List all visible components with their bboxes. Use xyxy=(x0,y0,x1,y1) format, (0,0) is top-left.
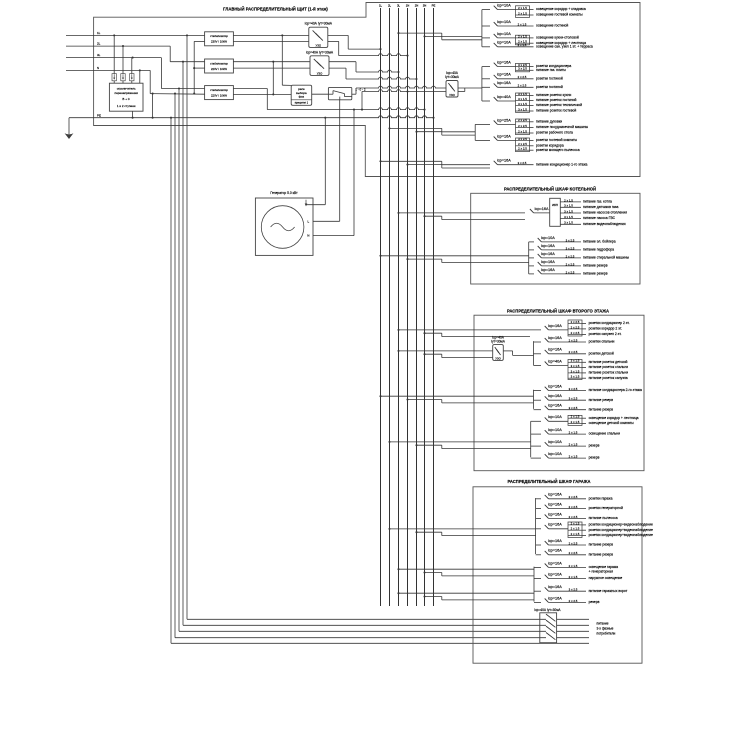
breaker QF21 40A xyxy=(534,359,629,380)
svg-text:Iср=16А: Iср=16А xyxy=(548,324,563,328)
feed wire bus 3N to 2nd floor row 1 xyxy=(423,332,530,336)
wire generator L to switch S1 xyxy=(313,100,340,222)
phase selection relay K1 (реле выбора фаз) xyxy=(291,85,312,105)
breaker QF16 boiler room xyxy=(529,260,608,268)
garage lighting riser xyxy=(533,567,535,602)
svg-text:2 x 1.5: 2 x 1.5 xyxy=(569,575,578,579)
breaker QF3 10A xyxy=(482,32,586,45)
svg-text:освещение коридор + лестница: освещение коридор + лестница xyxy=(589,416,639,420)
svg-text:УЗО: УЗО xyxy=(316,43,322,47)
breaker QF10 16A xyxy=(475,134,580,152)
svg-text:питание духовки: питание духовки xyxy=(536,119,562,123)
breaker QF29 16A xyxy=(536,493,613,501)
breaker QF19 16A xyxy=(534,336,615,344)
svg-text:УЗО: УЗО xyxy=(495,356,501,360)
svg-text:Iср=16А: Iср=16А xyxy=(497,61,512,65)
wire neutral N incoming xyxy=(66,66,205,95)
breaker QF5 16A xyxy=(482,61,572,72)
wire stabilizer U1 tap to relay K1 xyxy=(282,35,291,85)
2nd floor socket riser xyxy=(533,341,535,365)
svg-text:потребители: потребители xyxy=(597,632,616,636)
UPS unit (ИБП) xyxy=(550,198,561,226)
svg-text:Iср=16А: Iср=16А xyxy=(497,73,512,77)
feed wire bus 3N to 2nd floor RCD xyxy=(423,353,492,357)
svg-text:220V / 10kW: 220V / 10kW xyxy=(211,93,227,97)
svg-text:питание: питание xyxy=(597,622,609,626)
svg-text:3-х фазные: 3-х фазные xyxy=(597,627,614,631)
svg-text:PE: PE xyxy=(97,113,101,117)
feed wire bus 2N to garage socket riser xyxy=(415,531,535,535)
breaker QF28 10A xyxy=(531,452,600,460)
svg-text:В + С: В + С xyxy=(122,97,130,101)
svg-text:3 x 2.5: 3 x 2.5 xyxy=(566,238,575,242)
svg-text:2 x 1.5: 2 x 1.5 xyxy=(564,198,573,202)
breaker QF2 10A xyxy=(482,20,569,28)
wire generator N to N rail xyxy=(313,110,354,236)
wire 1L feeder to garage 3-phase switch xyxy=(187,35,546,619)
breaker QF15 boiler room xyxy=(529,252,630,260)
svg-text:Iср=16А: Iср=16А xyxy=(497,81,512,85)
wire PE bus xyxy=(69,113,435,118)
svg-text:Iср=16А: Iср=16А xyxy=(548,585,563,589)
svg-text:питание насоса ГВС: питание насоса ГВС xyxy=(583,216,616,220)
svg-text:Генератор 5.0 кВт: Генератор 5.0 кВт xyxy=(270,191,298,195)
breaker QF7 16A xyxy=(482,81,563,89)
svg-text:освещение спальни: освещение спальни xyxy=(589,432,620,436)
svg-text:Iср=16А: Iср=16А xyxy=(541,260,556,264)
svg-text:+ генераторная: + генераторная xyxy=(589,570,613,574)
feed wire bus 2N to appliance riser xyxy=(415,131,475,135)
wire 3-phase output 3 xyxy=(557,630,589,632)
svg-text:2N: 2N xyxy=(415,4,419,8)
breaker QF11 16A xyxy=(494,159,588,167)
feed wire bus 3N to boiler UPS breaker xyxy=(423,215,525,219)
svg-text:Iср=16А: Iср=16А xyxy=(548,539,563,543)
breaker QF1 10A xyxy=(482,4,586,18)
feed wire bus 3L to garage lighting riser xyxy=(397,568,534,570)
svg-text:2 x 2.5: 2 x 2.5 xyxy=(518,75,527,79)
svg-text:розетки спальни: розетки спальни xyxy=(589,340,615,344)
svg-text:2 x 2.5: 2 x 2.5 xyxy=(569,551,578,555)
svg-text:освещение кухни-столовой: освещение кухни-столовой xyxy=(536,36,579,40)
2nd floor conditioner riser xyxy=(533,390,535,409)
svg-text:питание насосов отопления: питание насосов отопления xyxy=(583,211,627,215)
feed wire bus 3N to garage gate riser xyxy=(423,595,534,599)
svg-text:1L: 1L xyxy=(97,31,101,35)
breaker QF4 10A xyxy=(482,41,593,49)
svg-text:ГЛАВНЫЙ РАСПРЕДЕЛИТЕЛЬНЫЙ ЩИТ: ГЛАВНЫЙ РАСПРЕДЕЛИТЕЛЬНЫЙ ЩИТ (1-й этаж) xyxy=(223,6,328,11)
wire UPS output 3 xyxy=(560,209,627,214)
svg-text:N: N xyxy=(307,234,309,238)
garage 3-phase main switch QS1 xyxy=(534,608,561,643)
svg-text:2 x 1.5: 2 x 1.5 xyxy=(569,431,578,435)
svg-text:2 x 2.5: 2 x 2.5 xyxy=(569,515,578,519)
svg-text:Iср=16А: Iср=16А xyxy=(541,252,556,256)
svg-text:Iср=40А Iут=30мА: Iср=40А Iут=30мА xyxy=(534,608,561,612)
feed wire bus 3N to lighting riser xyxy=(423,35,481,39)
breaker QF12 16A UPS feed xyxy=(530,207,550,213)
feed wire bus 3L to garage gate riser xyxy=(397,592,534,594)
wire phase 3L incoming xyxy=(66,53,205,89)
svg-text:2 x 2.5: 2 x 2.5 xyxy=(569,599,578,603)
breaker QF36 10A xyxy=(534,573,622,581)
breaker QF32 16A xyxy=(536,521,653,537)
svg-text:УЗО: УЗО xyxy=(317,71,323,75)
svg-text:Iср=10А: Iср=10А xyxy=(497,32,512,36)
svg-text:2 x 2.5: 2 x 2.5 xyxy=(569,541,578,545)
lighting group riser (main board) xyxy=(481,10,483,47)
svg-text:2 x 2.5: 2 x 2.5 xyxy=(566,270,575,274)
svg-text:питание розеток санузла: питание розеток санузла xyxy=(589,376,628,380)
wire N feeder to garage 3-phase switch xyxy=(175,94,546,638)
wire 3-phase output 2 xyxy=(557,624,589,626)
breaker QF22 16A xyxy=(534,385,642,393)
svg-text:освещение коридор + кладовка: освещение коридор + кладовка xyxy=(536,7,586,11)
wire 3-phase output 4 xyxy=(557,637,589,639)
svg-text:Iср=10А: Iср=10А xyxy=(548,440,563,444)
wire 3L feeder to garage 3-phase switch xyxy=(179,89,546,632)
breaker QF35 10A xyxy=(534,561,618,573)
svg-text:розетки детской: розетки детской xyxy=(589,351,614,355)
svg-text:Iср=16А: Iср=16А xyxy=(548,493,563,497)
garage panel enclosure xyxy=(473,479,642,663)
RCD Q4 (УЗО 40A/30mA) 2nd floor xyxy=(491,336,506,361)
breaker QF17 boiler room xyxy=(529,268,608,276)
generator G1 5.0 kW xyxy=(255,191,313,255)
second floor panel enclosure xyxy=(474,308,644,470)
svg-text:2 x 1.5: 2 x 1.5 xyxy=(569,443,578,447)
svg-text:розетки генераторной: розетки генераторной xyxy=(589,506,623,510)
svg-text:3 x 1.5: 3 x 1.5 xyxy=(564,215,573,219)
svg-text:освещение детской комнаты: освещение детской комнаты xyxy=(589,421,635,425)
boiler room panel enclosure xyxy=(471,187,640,284)
main distribution board enclosure xyxy=(94,3,640,177)
svg-text:Iср=16А: Iср=16А xyxy=(548,385,563,389)
breaker QF37 16A xyxy=(534,585,628,593)
breaker QF13 boiler room xyxy=(529,236,616,244)
svg-text:питание розеток кухни: питание розеток кухни xyxy=(536,93,571,97)
svg-text:розетки санузел 2 эт.: розетки санузел 2 эт. xyxy=(589,332,622,336)
wire UPS output 2 xyxy=(560,204,618,209)
svg-text:стабилизатор: стабилизатор xyxy=(210,88,228,92)
wire switch S1 output to RCD Q3 xyxy=(352,86,446,94)
svg-text:L: L xyxy=(308,219,310,223)
svg-text:2 x 1.5: 2 x 1.5 xyxy=(518,43,527,47)
svg-text:Iср=16А: Iср=16А xyxy=(548,394,563,398)
feed wire bus 3L to boiler UPS breaker xyxy=(397,212,525,214)
svg-text:питание розеток гостиной: питание розеток гостиной xyxy=(536,98,577,102)
breaker QF18 16A sockets 2nd floor xyxy=(545,320,630,336)
RCD Q1 (УЗО 40A/30mA) xyxy=(305,22,333,48)
svg-text:резерв: резерв xyxy=(589,600,600,604)
svg-text:Iср=10А: Iср=10А xyxy=(548,573,563,577)
svg-text:освещение сан. узел 1 эт. + те: освещение сан. узел 1 эт. + терраса xyxy=(536,44,593,48)
svg-text:питание кондиционер 1-го этажа: питание кондиционер 1-го этажа xyxy=(536,162,588,166)
svg-text:N: N xyxy=(97,66,99,70)
appliance group riser (main board) xyxy=(474,124,476,140)
svg-text:Iср=16А: Iср=16А xyxy=(548,404,563,408)
breaker QF31 16A xyxy=(536,512,618,520)
svg-text:розетки моющего пылесоса: розетки моющего пылесоса xyxy=(536,148,580,152)
wire RCD Q1 output to bus 1L xyxy=(328,35,382,50)
svg-text:Iср=10А: Iср=10А xyxy=(497,4,512,8)
svg-text:розетки кондиционер+видеонаблю: розетки кондиционер+видеонаблюдение xyxy=(589,523,653,527)
svg-text:1 и 2 ступени: 1 и 2 ступени xyxy=(117,104,136,108)
breaker QF23 16A xyxy=(534,394,614,402)
svg-text:3 x 2.5: 3 x 2.5 xyxy=(569,387,578,391)
svg-text:питание посудомоечной машины: питание посудомоечной машины xyxy=(536,125,589,129)
svg-text:2 x 1.5: 2 x 1.5 xyxy=(518,22,527,26)
svg-text:питание резерв: питание резерв xyxy=(583,272,608,276)
wire N rail xyxy=(267,108,425,111)
svg-text:розетки кондиционер 2 эт.: розетки кондиционер 2 эт. xyxy=(589,321,630,325)
feed wire bus 1N to 2nd floor group 2 riser xyxy=(406,398,533,402)
svg-text:питание резерв: питание резерв xyxy=(583,264,608,268)
svg-text:освещение гостевой комнаты: освещение гостевой комнаты xyxy=(536,13,583,17)
wire stabilizer U3 output to N rail xyxy=(233,89,267,110)
feed wire bus 3L to lighting riser xyxy=(397,32,481,36)
svg-text:ИБП: ИБП xyxy=(552,203,558,207)
voltage stabilizer U1 (стабилизатор) xyxy=(205,32,234,46)
svg-text:Iср=16А: Iср=16А xyxy=(548,503,563,507)
feed wire bus 3N to garage lighting riser xyxy=(423,571,534,575)
svg-text:питание кондиционера 2-го этаж: питание кондиционера 2-го этажа xyxy=(589,388,642,392)
wire 2L feeder to garage 3-phase switch xyxy=(183,62,546,626)
svg-text:Iср=16А: Iср=16А xyxy=(548,512,563,516)
svg-text:стабилизатор: стабилизатор xyxy=(210,34,228,38)
svg-text:резерв: резерв xyxy=(589,456,600,460)
breaker QF38 16A xyxy=(534,596,600,604)
svg-text:питание резерв: питание резерв xyxy=(589,398,614,402)
feed wire bus 2L to 2nd floor lighting riser xyxy=(388,441,530,443)
breaker QF26 10A xyxy=(531,428,620,436)
breaker QF27 10A xyxy=(531,440,600,448)
svg-text:розетки кондиционер+видеонаблю: розетки кондиционер+видеонаблюдение xyxy=(589,528,653,532)
breaker QF9 25A xyxy=(475,118,588,134)
svg-text:Iср=10А: Iср=10А xyxy=(548,428,563,432)
svg-text:питание видеонаблюдения: питание видеонаблюдения xyxy=(583,222,626,226)
svg-text:питание розеток технической: питание розеток технической xyxy=(536,103,582,107)
breaker QF25 10A xyxy=(531,415,639,426)
svg-text:питание резерв: питание резерв xyxy=(589,407,614,411)
svg-text:Iср=40А Iут=30мА: Iср=40А Iут=30мА xyxy=(305,22,333,26)
feed wire bus 2N to 2nd floor lighting riser xyxy=(415,444,530,448)
svg-text:Iср=40А: Iср=40А xyxy=(548,359,563,363)
breaker QF24 16A xyxy=(534,404,614,412)
svg-text:питание гидрофора: питание гидрофора xyxy=(583,248,614,252)
svg-text:Iср=16А: Iср=16А xyxy=(497,134,512,138)
svg-text:Iср=16А: Iср=16А xyxy=(535,207,550,211)
feed wire bus 2L to appliance riser xyxy=(388,127,475,131)
svg-text:питание газ. плиты: питание газ. плиты xyxy=(536,68,566,72)
svg-text:Iср=25А: Iср=25А xyxy=(497,118,512,122)
wire N rail tap to RCD Q3 xyxy=(361,90,446,111)
svg-text:Iср=16А: Iср=16А xyxy=(548,549,563,553)
svg-text:Iут=30мА: Iут=30мА xyxy=(445,75,460,79)
feed wire bus 1N to boiler riser xyxy=(406,258,528,262)
svg-text:Iср=16А: Iср=16А xyxy=(541,244,556,248)
svg-text:питание датчиков газа: питание датчиков газа xyxy=(583,205,618,209)
wire RCD Q1 neutral to bus 1N xyxy=(328,41,409,56)
breaker QF33 16A xyxy=(536,539,614,547)
wire RCD Q4 output to riser xyxy=(503,351,533,356)
svg-text:2 x 2.5: 2 x 2.5 xyxy=(518,84,527,88)
svg-text:Iср=16А: Iср=16А xyxy=(548,596,563,600)
svg-text:1N: 1N xyxy=(406,4,410,8)
svg-text:розетки гаража: розетки гаража xyxy=(589,496,613,500)
wire phase 1L incoming xyxy=(66,31,283,36)
svg-text:2L: 2L xyxy=(97,42,101,46)
svg-text:3 x 2.5: 3 x 2.5 xyxy=(566,246,575,250)
label 3-phase consumers xyxy=(597,622,616,636)
svg-text:розетки гостевой комнаты: розетки гостевой комнаты xyxy=(536,138,577,142)
svg-text:питание эл. бойлера: питание эл. бойлера xyxy=(583,240,616,244)
svg-text:питание розеток гостевой: питание розеток гостевой xyxy=(536,109,576,113)
wire RCD Q2 neutral to bus 2N xyxy=(329,68,418,80)
wire UPS output 1 xyxy=(560,198,612,203)
feed wire bus 3L to 2nd floor RCD xyxy=(397,350,492,352)
svg-text:2 x 2.5: 2 x 2.5 xyxy=(566,262,575,266)
svg-text:питание резерв: питание резерв xyxy=(589,552,614,556)
svg-text:3 x 2.5: 3 x 2.5 xyxy=(569,588,578,592)
voltage stabilizer U2 (стабилизатор) xyxy=(205,59,234,73)
svg-text:2 x 2.5: 2 x 2.5 xyxy=(569,338,578,342)
breaker QF14 boiler room xyxy=(529,244,614,252)
svg-text:2 x 1.5: 2 x 1.5 xyxy=(569,564,578,568)
breaker QF34 16A xyxy=(536,549,614,557)
svg-text:3L: 3L xyxy=(97,53,101,57)
svg-text:РАСПРЕДЕЛИТЕЛЬНЫЙ ШКАФ КОТЕЛЬН: РАСПРЕДЕЛИТЕЛЬНЫЙ ШКАФ КОТЕЛЬНОЙ xyxy=(504,187,596,192)
RCD Q2 (УЗО 40A/30mA) xyxy=(306,51,334,76)
svg-text:3L: 3L xyxy=(397,4,401,8)
feed wire bus 1L to conditioner breaker QF11 xyxy=(379,160,490,164)
svg-text:стабилизатор: стабилизатор xyxy=(210,61,228,65)
wire N distribution riser xyxy=(193,41,204,93)
svg-text:розетки гостиной: розетки гостиной xyxy=(536,85,563,89)
svg-text:питание розеток спальни: питание розеток спальни xyxy=(589,365,629,369)
svg-text:приоритет 1: приоритет 1 xyxy=(295,102,309,105)
svg-text:3 x 1.5: 3 x 1.5 xyxy=(564,209,573,213)
wire phase 2L incoming xyxy=(66,42,205,63)
wire relay K1 to changeover switch S1 xyxy=(312,93,329,95)
wire UPS output 4 xyxy=(560,215,615,220)
svg-text:питание розеток детской: питание розеток детской xyxy=(589,360,628,364)
distribution bus group xyxy=(379,4,436,606)
svg-text:2 x 2.5: 2 x 2.5 xyxy=(566,254,575,258)
feed wire bus 1L to 2nd floor group 2 riser xyxy=(379,395,533,397)
2nd floor lighting riser xyxy=(530,421,532,457)
RCD Q3 (УЗО 40A/30mA) xyxy=(445,71,460,97)
svg-text:розетки рабочего стола: розетки рабочего стола xyxy=(536,131,573,135)
feed wire bus 3L to 2nd floor row 1 xyxy=(397,329,541,331)
ground electrode symbol xyxy=(65,118,74,139)
svg-text:2 x 2.5: 2 x 2.5 xyxy=(569,350,578,354)
svg-text:резерв: резерв xyxy=(589,444,600,448)
wire generator PE xyxy=(306,118,325,205)
svg-text:3 x 2.5: 3 x 2.5 xyxy=(569,406,578,410)
svg-text:Iср=16А: Iср=16А xyxy=(541,268,556,272)
svg-text:Iср=16А: Iср=16А xyxy=(548,348,563,352)
wire RCD Q3 output to socket group riser xyxy=(458,88,482,92)
svg-text:РАСПРЕДЕЛИТЕЛЬНЫЙ ШКАФ ГАРАЖА: РАСПРЕДЕЛИТЕЛЬНЫЙ ШКАФ ГАРАЖА xyxy=(507,479,590,484)
svg-text:Iср=16А: Iср=16А xyxy=(548,523,563,527)
svg-text:220V / 10kW: 220V / 10kW xyxy=(211,67,227,71)
svg-text:фаз: фаз xyxy=(299,95,305,99)
feed wire bus 2L to garage socket riser xyxy=(388,528,535,530)
svg-text:3 x 1.5: 3 x 1.5 xyxy=(564,221,573,225)
voltage stabilizer U3 (стабилизатор) xyxy=(205,86,234,100)
svg-text:розетки кондиционер+видеонаблю: розетки кондиционер+видеонаблюдение xyxy=(589,533,653,537)
garage socket riser xyxy=(535,498,537,554)
breaker QF20 16A xyxy=(534,348,614,356)
svg-text:питание гаражных ворот: питание гаражных ворот xyxy=(589,589,628,593)
svg-text:питание резерв: питание резерв xyxy=(589,543,614,547)
svg-text:230V / 10kW: 230V / 10kW xyxy=(211,40,227,44)
surge protection device F1 (ограничитель перенапряжения) xyxy=(109,35,143,117)
svg-text:УЗО: УЗО xyxy=(449,93,455,97)
wire UPS output 5 xyxy=(560,221,625,226)
svg-text:Iут=30мА: Iут=30мА xyxy=(491,340,506,344)
boiler room group riser xyxy=(528,242,530,274)
svg-text:Iср=40А Iут=30мА: Iср=40А Iут=30мА xyxy=(306,51,334,55)
svg-text:освещение гаража: освещение гаража xyxy=(589,565,619,569)
wire stabilizer U2 outputs to RCD Q2 xyxy=(233,61,310,68)
svg-text:РАСПРЕДЕЛИТЕЛЬНЫЙ ШКАФ ВТОРОГО: РАСПРЕДЕЛИТЕЛЬНЫЙ ШКАФ ВТОРОГО ЭТАЖА xyxy=(507,308,609,313)
svg-text:3 x 1.5: 3 x 1.5 xyxy=(564,204,573,208)
wire N-PE link xyxy=(152,94,154,118)
svg-text:освещение гостиной: освещение гостиной xyxy=(536,24,568,28)
wire RCD Q2 output to bus 3L xyxy=(329,62,400,73)
svg-text:1L: 1L xyxy=(379,4,383,8)
svg-text:PE: PE xyxy=(432,4,436,8)
svg-text:3 x 2.5: 3 x 2.5 xyxy=(518,161,527,165)
svg-text:Iср=40А: Iср=40А xyxy=(497,95,512,99)
svg-text:розетки гостиной: розетки гостиной xyxy=(536,76,563,80)
svg-text:3 x 2.5: 3 x 2.5 xyxy=(569,397,578,401)
svg-text:2L: 2L xyxy=(388,4,392,8)
svg-text:Iср=16А: Iср=16А xyxy=(497,159,512,163)
svg-text:Iср=16А: Iср=16А xyxy=(548,336,563,340)
svg-text:питание пылесоса: питание пылесоса xyxy=(589,516,618,520)
svg-text:Iср=10А: Iср=10А xyxy=(548,561,563,565)
breaker QF6 16A xyxy=(482,73,563,81)
wire 3-phase output 1 xyxy=(557,618,589,620)
svg-text:2 x 2.5: 2 x 2.5 xyxy=(569,505,578,509)
svg-text:3N: 3N xyxy=(423,4,427,8)
svg-text:питание стиральной машины: питание стиральной машины xyxy=(583,256,630,260)
svg-text:питание газ. котла: питание газ. котла xyxy=(583,200,612,204)
breaker QF8 40A xyxy=(482,92,582,113)
svg-text:Iср=10А: Iср=10А xyxy=(541,236,556,240)
breaker QF30 16A xyxy=(536,503,623,511)
svg-text:Iср=10А: Iср=10А xyxy=(548,452,563,456)
wire stabilizer U1 outputs to RCD Q1 xyxy=(233,35,308,41)
wire stabilizer U2 tap to relay K1 xyxy=(233,62,291,96)
feed wire bus 1L to boiler riser xyxy=(379,255,528,257)
svg-text:розетки коридор 2 эт.: розетки коридор 2 эт. xyxy=(589,327,622,331)
svg-text:питание розеток спальни: питание розеток спальни xyxy=(589,371,629,375)
socket group riser (main board) xyxy=(481,67,483,101)
svg-text:2 x 1.5: 2 x 1.5 xyxy=(569,455,578,459)
changeover switch S1 (1-0-2) xyxy=(328,87,365,99)
svg-text:Iср=10А: Iср=10А xyxy=(497,41,512,45)
wire PE feeder to garage 3-phase switch xyxy=(171,118,589,644)
feed wire bus 1N to conditioner breaker QF11 xyxy=(406,164,490,168)
svg-text:2 x 2.5: 2 x 2.5 xyxy=(569,495,578,499)
svg-text:розетки коридора: розетки коридора xyxy=(536,143,564,147)
svg-text:Iср=10А: Iср=10А xyxy=(497,20,512,24)
svg-text:Iср=10А: Iср=10А xyxy=(548,415,563,419)
